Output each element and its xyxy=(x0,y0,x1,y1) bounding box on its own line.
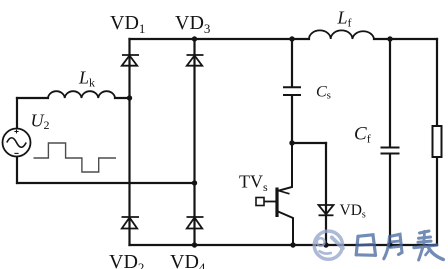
svg-text:VDs: VDs xyxy=(340,202,366,221)
svg-text:U2: U2 xyxy=(31,111,50,133)
svg-text:VD3: VD3 xyxy=(175,12,210,36)
svg-text:Cs: Cs xyxy=(316,84,331,102)
svg-text:VD1: VD1 xyxy=(110,12,145,36)
svg-text:Lk: Lk xyxy=(78,68,95,90)
svg-text:TVs: TVs xyxy=(239,172,268,195)
svg-text:Cf: Cf xyxy=(354,124,371,146)
svg-text:VD2: VD2 xyxy=(109,251,144,269)
svg-text:Lf: Lf xyxy=(337,8,352,30)
svg-text:VD4: VD4 xyxy=(170,251,206,269)
